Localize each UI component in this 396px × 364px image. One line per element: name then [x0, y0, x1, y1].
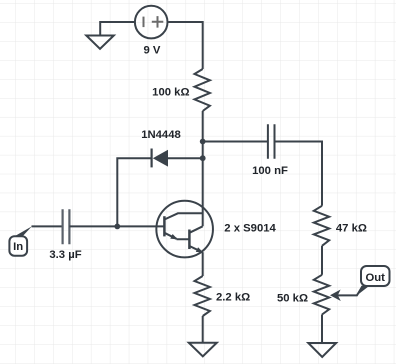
svg-text:In: In [13, 241, 23, 253]
svg-text:100 nF: 100 nF [252, 165, 288, 177]
svg-text:50 kΩ: 50 kΩ [277, 292, 308, 304]
svg-text:47 kΩ: 47 kΩ [336, 223, 367, 235]
svg-text:9 V: 9 V [144, 44, 161, 56]
svg-text:100 kΩ: 100 kΩ [152, 87, 189, 99]
svg-text:3.3 µF: 3.3 µF [49, 249, 81, 261]
svg-text:2.2 kΩ: 2.2 kΩ [216, 292, 250, 304]
svg-text:Out: Out [365, 272, 385, 284]
svg-text:2 x S9014: 2 x S9014 [224, 223, 276, 235]
svg-text:1N4448: 1N4448 [141, 129, 181, 141]
